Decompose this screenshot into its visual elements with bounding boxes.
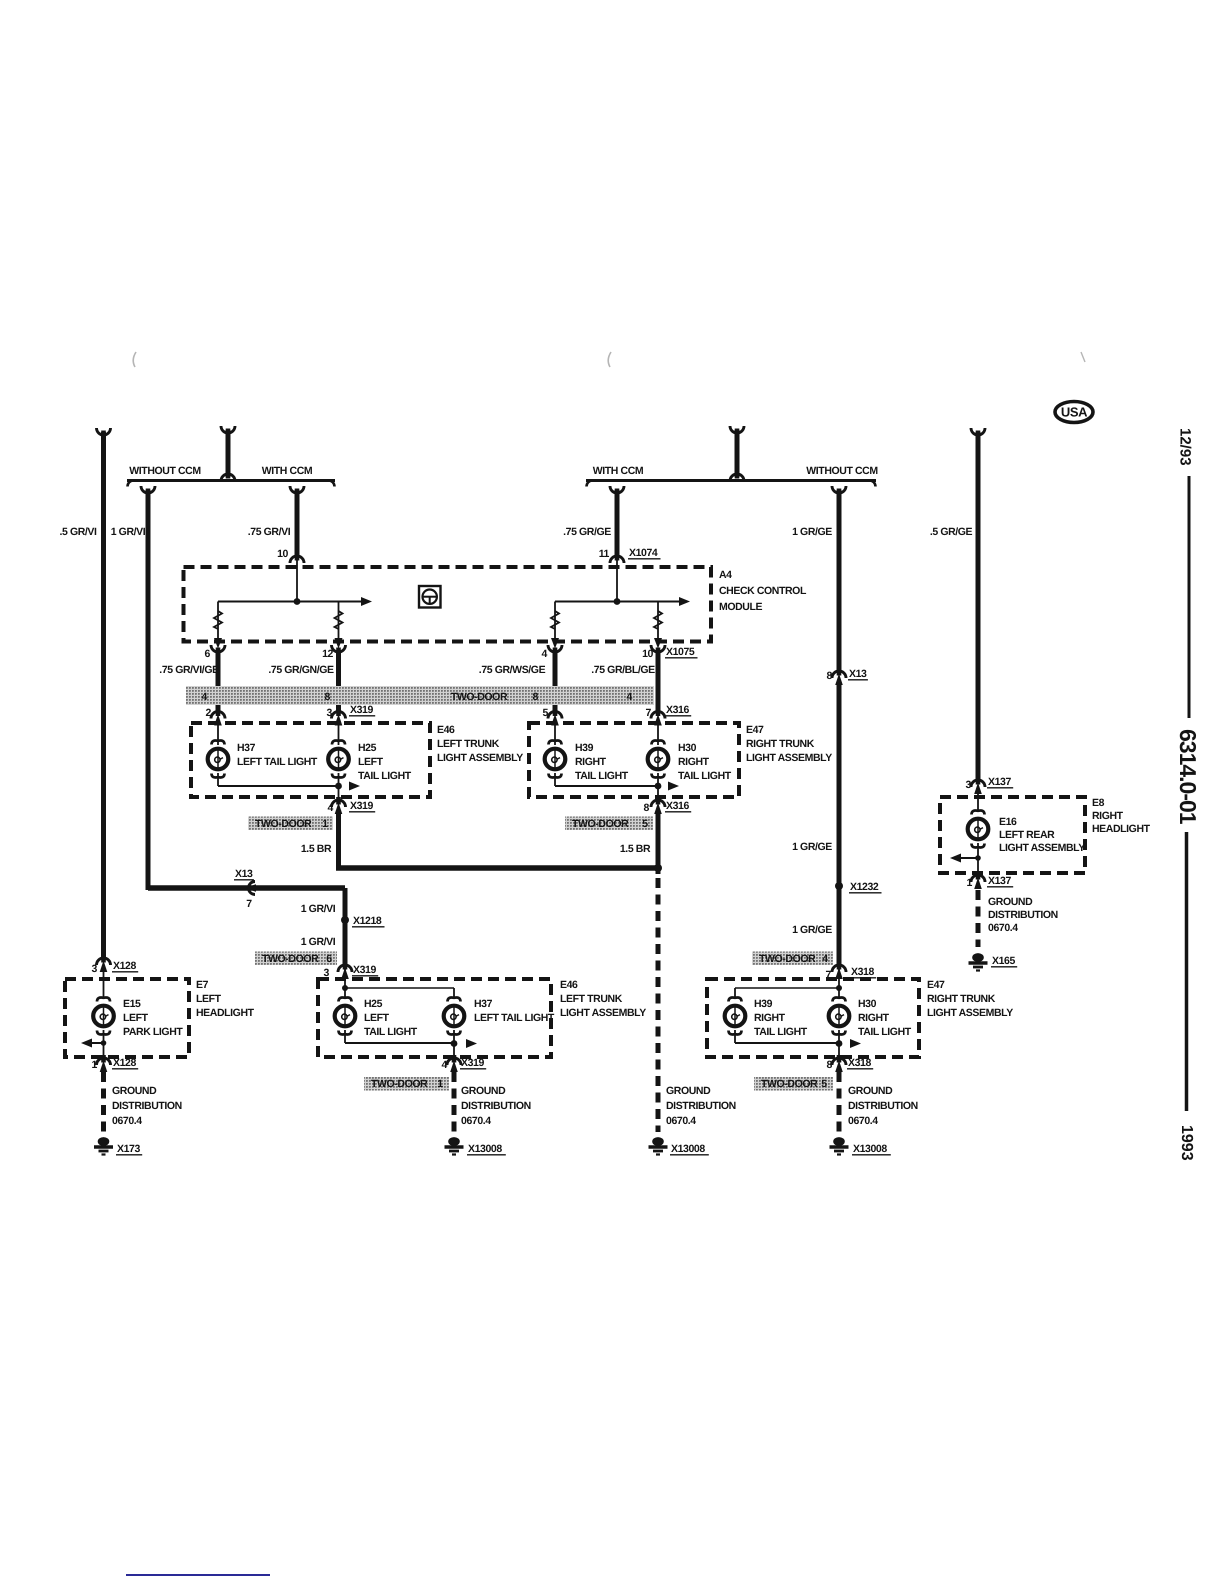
- svg-text:TWO-DOOR: TWO-DOOR: [761, 1078, 818, 1090]
- svg-text:0670.4: 0670.4: [848, 1115, 878, 1127]
- svg-text:.75 GR/VI: .75 GR/VI: [248, 526, 291, 538]
- svg-text:RIGHT: RIGHT: [754, 1012, 786, 1024]
- svg-text:CHECK CONTROL: CHECK CONTROL: [719, 585, 807, 597]
- svg-text:8: 8: [827, 670, 833, 682]
- svg-text:2: 2: [206, 707, 212, 719]
- svg-text:USA: USA: [1061, 405, 1088, 420]
- svg-text:LEFT REAR: LEFT REAR: [999, 829, 1055, 841]
- svg-text:E46: E46: [437, 724, 455, 736]
- svg-text:LEFT TRUNK: LEFT TRUNK: [437, 738, 500, 750]
- svg-text:TAIL LIGHT: TAIL LIGHT: [678, 770, 732, 782]
- svg-text:1: 1: [322, 818, 328, 830]
- svg-text:GROUND: GROUND: [988, 896, 1033, 908]
- svg-text:X173: X173: [117, 1143, 140, 1155]
- svg-text:H39: H39: [754, 998, 773, 1010]
- svg-text:TWO-DOOR: TWO-DOOR: [255, 818, 312, 830]
- svg-text:LEFT: LEFT: [364, 1012, 390, 1024]
- svg-text:X13: X13: [235, 868, 253, 880]
- svg-text:X128: X128: [113, 1057, 136, 1069]
- svg-text:3: 3: [92, 963, 98, 975]
- svg-text:X13008: X13008: [468, 1143, 502, 1155]
- svg-text:10: 10: [277, 548, 288, 560]
- svg-text:TAIL LIGHT: TAIL LIGHT: [575, 770, 629, 782]
- svg-text:4: 4: [822, 953, 828, 965]
- svg-text:X319: X319: [461, 1057, 484, 1069]
- svg-text:A4: A4: [719, 569, 732, 581]
- svg-text:0670.4: 0670.4: [988, 922, 1018, 934]
- svg-text:X13008: X13008: [671, 1143, 705, 1155]
- svg-text:E47: E47: [927, 979, 945, 991]
- svg-text:4: 4: [442, 1059, 448, 1071]
- svg-text:8: 8: [533, 691, 539, 703]
- svg-text:E7: E7: [196, 979, 209, 991]
- svg-text:X316: X316: [666, 800, 689, 812]
- svg-text:LEFT TAIL LIGHT: LEFT TAIL LIGHT: [237, 756, 318, 768]
- svg-text:LEFT: LEFT: [358, 756, 384, 768]
- svg-text:DISTRIBUTION: DISTRIBUTION: [666, 1100, 736, 1112]
- svg-text:7: 7: [646, 707, 652, 719]
- svg-text:10: 10: [642, 648, 653, 660]
- svg-text:5: 5: [543, 707, 549, 719]
- svg-text:X128: X128: [113, 960, 136, 972]
- svg-text:H30: H30: [858, 998, 877, 1010]
- svg-text:LIGHT ASSEMBLY: LIGHT ASSEMBLY: [437, 752, 523, 764]
- svg-text:TAIL LIGHT: TAIL LIGHT: [858, 1026, 912, 1038]
- svg-text:LIGHT ASSEMBLY: LIGHT ASSEMBLY: [999, 842, 1085, 854]
- svg-text:0670.4: 0670.4: [461, 1115, 491, 1127]
- svg-text:E47: E47: [746, 724, 764, 736]
- svg-text:E46: E46: [560, 979, 578, 991]
- svg-text:LIGHT ASSEMBLY: LIGHT ASSEMBLY: [560, 1007, 646, 1019]
- svg-text:4: 4: [202, 691, 208, 703]
- svg-text:H25: H25: [364, 998, 383, 1010]
- svg-text:TWO-DOOR: TWO-DOOR: [572, 818, 629, 830]
- svg-text:E8: E8: [1092, 797, 1105, 809]
- svg-text:WITH CCM: WITH CCM: [593, 465, 644, 477]
- svg-text:TWO-DOOR: TWO-DOOR: [371, 1078, 428, 1090]
- svg-text:X318: X318: [848, 1057, 871, 1069]
- svg-text:1 GR/VI: 1 GR/VI: [111, 526, 146, 538]
- svg-text:LEFT TAIL LIGHT: LEFT TAIL LIGHT: [474, 1012, 555, 1024]
- svg-text:X1218: X1218: [353, 915, 382, 927]
- svg-text:H37: H37: [474, 998, 493, 1010]
- svg-text:TAIL LIGHT: TAIL LIGHT: [358, 770, 412, 782]
- svg-text:E15: E15: [123, 998, 141, 1010]
- svg-text:WITHOUT CCM: WITHOUT CCM: [129, 465, 201, 477]
- svg-text:WITH CCM: WITH CCM: [262, 465, 313, 477]
- svg-text:RIGHT: RIGHT: [575, 756, 607, 768]
- svg-text:X319: X319: [350, 800, 373, 812]
- svg-text:LEFT: LEFT: [123, 1012, 149, 1024]
- svg-text:.75 GR/GE: .75 GR/GE: [563, 526, 611, 538]
- svg-text:DISTRIBUTION: DISTRIBUTION: [112, 1100, 182, 1112]
- svg-text:LIGHT ASSEMBLY: LIGHT ASSEMBLY: [927, 1007, 1013, 1019]
- svg-text:H37: H37: [237, 742, 256, 754]
- svg-text:8: 8: [644, 802, 650, 814]
- svg-text:RIGHT: RIGHT: [1092, 810, 1124, 822]
- svg-text:.75 GR/WS/GE: .75 GR/WS/GE: [479, 664, 546, 676]
- svg-text:DISTRIBUTION: DISTRIBUTION: [988, 909, 1058, 921]
- svg-text:LIGHT ASSEMBLY: LIGHT ASSEMBLY: [746, 752, 832, 764]
- svg-text:H39: H39: [575, 742, 594, 754]
- svg-text:5: 5: [821, 1078, 827, 1090]
- svg-text:1 GR/VI: 1 GR/VI: [301, 903, 336, 915]
- svg-text:X1075: X1075: [666, 646, 695, 658]
- svg-text:.5 GR/GE: .5 GR/GE: [930, 526, 973, 538]
- svg-text:X1232: X1232: [850, 881, 879, 893]
- svg-text:12/93: 12/93: [1177, 428, 1194, 466]
- svg-text:0670.4: 0670.4: [666, 1115, 696, 1127]
- svg-text:3: 3: [327, 707, 333, 719]
- svg-text:11: 11: [599, 548, 610, 560]
- svg-text:8: 8: [325, 691, 331, 703]
- svg-text:RIGHT TRUNK: RIGHT TRUNK: [746, 738, 815, 750]
- svg-text:1 GR/GE: 1 GR/GE: [792, 526, 832, 538]
- svg-text:5: 5: [642, 818, 648, 830]
- svg-text:E16: E16: [999, 816, 1017, 828]
- svg-text:4: 4: [627, 691, 633, 703]
- svg-text:H25: H25: [358, 742, 377, 754]
- svg-text:6: 6: [326, 953, 332, 965]
- svg-text:X316: X316: [666, 704, 689, 716]
- svg-text:WITHOUT CCM: WITHOUT CCM: [806, 465, 878, 477]
- svg-text:LEFT TRUNK: LEFT TRUNK: [560, 993, 623, 1005]
- svg-text:1.5 BR: 1.5 BR: [620, 843, 651, 855]
- svg-text:DISTRIBUTION: DISTRIBUTION: [848, 1100, 918, 1112]
- svg-text:1: 1: [92, 1059, 98, 1071]
- svg-text:X13: X13: [849, 668, 867, 680]
- svg-text:1 GR/GE: 1 GR/GE: [792, 841, 832, 853]
- svg-text:X13008: X13008: [853, 1143, 887, 1155]
- svg-text:X319: X319: [350, 704, 373, 716]
- svg-text:GROUND: GROUND: [112, 1085, 157, 1097]
- svg-text:MODULE: MODULE: [719, 601, 762, 613]
- svg-text:1993: 1993: [1178, 1125, 1195, 1161]
- svg-text:1: 1: [437, 1078, 443, 1090]
- svg-text:HEADLIGHT: HEADLIGHT: [1092, 823, 1151, 835]
- svg-text:4: 4: [542, 648, 548, 660]
- svg-text:1 GR/VI: 1 GR/VI: [301, 936, 336, 948]
- svg-text:12: 12: [322, 648, 333, 660]
- svg-text:GROUND: GROUND: [461, 1085, 506, 1097]
- svg-text:RIGHT: RIGHT: [678, 756, 710, 768]
- svg-text:LEFT: LEFT: [196, 993, 222, 1005]
- svg-text:6: 6: [205, 648, 211, 660]
- svg-text:RIGHT TRUNK: RIGHT TRUNK: [927, 993, 996, 1005]
- svg-text:3: 3: [966, 779, 972, 791]
- svg-text:X137: X137: [988, 875, 1011, 887]
- svg-text:GROUND: GROUND: [666, 1085, 711, 1097]
- svg-text:X137: X137: [988, 776, 1011, 788]
- svg-text:X318: X318: [851, 966, 874, 978]
- svg-text:8: 8: [827, 1059, 833, 1071]
- svg-text:X165: X165: [992, 955, 1015, 967]
- svg-text:TAIL LIGHT: TAIL LIGHT: [364, 1026, 418, 1038]
- svg-text:TWO-DOOR: TWO-DOOR: [759, 953, 816, 965]
- svg-text:0670.4: 0670.4: [112, 1115, 142, 1127]
- svg-text:TWO-DOOR: TWO-DOOR: [262, 953, 319, 965]
- svg-text:1.5 BR: 1.5 BR: [301, 843, 332, 855]
- svg-text:.5 GR/VI: .5 GR/VI: [59, 526, 97, 538]
- svg-text:1 GR/GE: 1 GR/GE: [792, 924, 832, 936]
- svg-text:GROUND: GROUND: [848, 1085, 893, 1097]
- svg-text:PARK LIGHT: PARK LIGHT: [123, 1026, 183, 1038]
- svg-text:TAIL LIGHT: TAIL LIGHT: [754, 1026, 808, 1038]
- svg-text:4: 4: [328, 802, 334, 814]
- svg-text:.75 GR/VI/GE: .75 GR/VI/GE: [159, 664, 219, 676]
- svg-text:DISTRIBUTION: DISTRIBUTION: [461, 1100, 531, 1112]
- svg-text:X1074: X1074: [629, 547, 658, 559]
- svg-text:7: 7: [246, 898, 252, 910]
- svg-text:TWO-DOOR: TWO-DOOR: [451, 691, 508, 703]
- svg-text:1: 1: [967, 877, 973, 889]
- svg-text:H30: H30: [678, 742, 697, 754]
- svg-text:X319: X319: [353, 964, 376, 976]
- svg-text:RIGHT: RIGHT: [858, 1012, 890, 1024]
- svg-text:.75 GR/BL/GE: .75 GR/BL/GE: [591, 664, 655, 676]
- svg-text:6314.0-01: 6314.0-01: [1175, 729, 1201, 825]
- svg-text:.75 GR/GN/GE: .75 GR/GN/GE: [268, 664, 334, 676]
- svg-text:HEADLIGHT: HEADLIGHT: [196, 1007, 255, 1019]
